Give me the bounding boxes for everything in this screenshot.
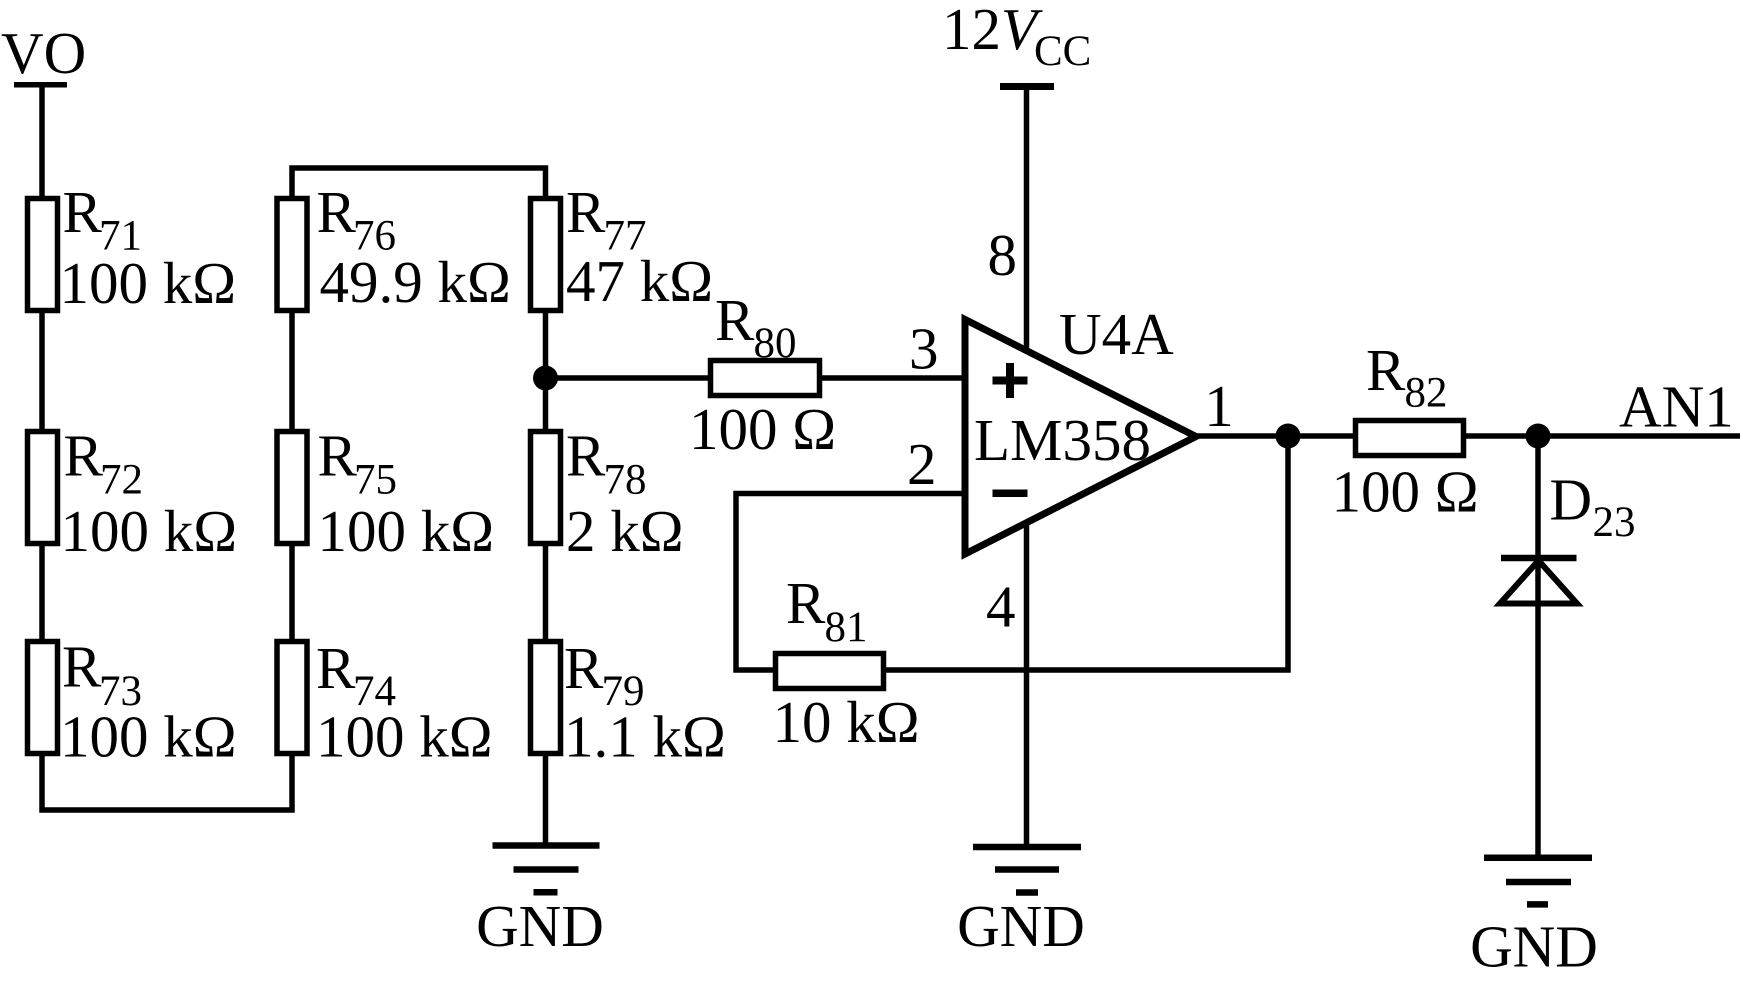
svg-text:82: 82 — [1405, 370, 1448, 417]
resistor R79 — [531, 642, 561, 754]
wire pin 2 feedback loop — [736, 494, 965, 671]
svg-text:49.9 kΩ: 49.9 kΩ — [320, 249, 511, 315]
ground GND1 symbol — [493, 846, 600, 893]
resistor R77 — [531, 199, 561, 311]
svg-text:R: R — [318, 423, 358, 489]
wire node A to R80 — [546, 375, 713, 381]
ground GND2 symbol — [973, 847, 1081, 893]
wire AN1 node to diode — [1535, 436, 1541, 858]
svg-text:78: 78 — [604, 457, 647, 504]
ground GND3 symbol — [1484, 858, 1592, 905]
wire op-amp output to AN1 — [1197, 433, 1740, 439]
resistor R80 — [711, 361, 820, 396]
resistor R72 — [28, 432, 58, 544]
svg-text:R: R — [715, 287, 755, 353]
svg-text:12: 12 — [942, 0, 1001, 62]
wire R71 to R72 — [39, 313, 45, 432]
svg-text:8: 8 — [988, 222, 1018, 288]
svg-text:100 kΩ: 100 kΩ — [318, 498, 495, 564]
svg-text:100 kΩ: 100 kΩ — [60, 250, 237, 316]
svg-text:R: R — [316, 635, 356, 701]
wire R80 to op-amp pin 3 — [822, 375, 965, 381]
op-amp minus input symbol — [993, 490, 1028, 498]
pin 4 wire — [1024, 521, 1030, 847]
svg-text:10 kΩ: 10 kΩ — [773, 689, 920, 755]
svg-text:D: D — [1550, 467, 1593, 533]
power 12Vcc terminal bar — [1000, 83, 1054, 90]
resistor R71 — [28, 199, 58, 311]
resistor R78 — [531, 432, 561, 544]
svg-text:R: R — [566, 179, 606, 245]
svg-text:1.1 kΩ: 1.1 kΩ — [564, 704, 726, 770]
svg-text:R: R — [786, 570, 826, 636]
wire R75 to R74 — [289, 546, 295, 642]
svg-text:GND: GND — [476, 893, 604, 959]
node output junction dot — [1276, 424, 1301, 449]
wire R78 to R79 — [543, 546, 549, 642]
wire R81 to output node — [886, 436, 1288, 670]
svg-text:100 kΩ: 100 kΩ — [60, 704, 237, 770]
svg-text:R: R — [564, 635, 604, 701]
svg-text:R: R — [63, 179, 103, 245]
wire R76 to R75 — [289, 313, 295, 432]
svg-text:100 Ω: 100 Ω — [689, 396, 836, 462]
svg-text:R: R — [62, 634, 102, 700]
svg-text:R: R — [64, 423, 104, 489]
node VO terminal bar — [14, 82, 67, 88]
diode D23 triangle — [1500, 561, 1577, 604]
op-amp plus input symbol — [993, 363, 1028, 398]
svg-text:CC: CC — [1034, 28, 1091, 75]
svg-text:3: 3 — [909, 316, 939, 382]
resistor R75 — [277, 432, 307, 544]
wire R77 to R78 — [543, 313, 549, 432]
wire R79 to ground — [543, 756, 549, 846]
svg-text:81: 81 — [825, 604, 868, 651]
svg-text:100 kΩ: 100 kΩ — [61, 498, 238, 564]
svg-text:47 kΩ: 47 kΩ — [566, 248, 713, 314]
svg-text:R: R — [317, 179, 357, 245]
resistor R82 — [1356, 421, 1464, 456]
svg-text:23: 23 — [1593, 499, 1636, 546]
resistor R76 — [277, 199, 307, 311]
resistor R74 — [277, 642, 307, 754]
svg-text:72: 72 — [100, 457, 143, 504]
svg-text:R: R — [566, 423, 606, 489]
svg-text:VO: VO — [1, 20, 86, 86]
node junction A dot — [533, 366, 558, 391]
svg-text:U4A: U4A — [1059, 301, 1174, 367]
svg-text:100 kΩ: 100 kΩ — [316, 704, 493, 770]
resistor R73 — [28, 642, 58, 754]
svg-text:1: 1 — [1204, 373, 1234, 439]
svg-text:100 Ω: 100 Ω — [1332, 459, 1479, 525]
svg-text:2: 2 — [907, 431, 937, 497]
svg-text:R: R — [1366, 337, 1406, 403]
svg-text:GND: GND — [1470, 914, 1598, 980]
svg-text:GND: GND — [957, 893, 1085, 959]
resistor R81 — [776, 654, 884, 689]
svg-text:80: 80 — [754, 320, 797, 367]
op-amp U1 triangle — [965, 320, 1196, 555]
svg-text:AN1: AN1 — [1619, 374, 1734, 440]
svg-text:4: 4 — [986, 574, 1016, 640]
wire bottom bus R73 to R74 — [42, 753, 292, 810]
node AN1 junction dot — [1526, 424, 1551, 449]
svg-text:2 kΩ: 2 kΩ — [566, 498, 684, 564]
pin 8 wire — [1024, 90, 1030, 353]
svg-text:75: 75 — [354, 457, 397, 504]
diode D23 cathode bar — [1501, 555, 1577, 562]
svg-text:LM358: LM358 — [974, 407, 1151, 473]
wire top bus R76 to R77 — [292, 168, 546, 201]
wire R72 to R73 — [39, 546, 45, 642]
wire VO to R71 — [39, 87, 45, 198]
